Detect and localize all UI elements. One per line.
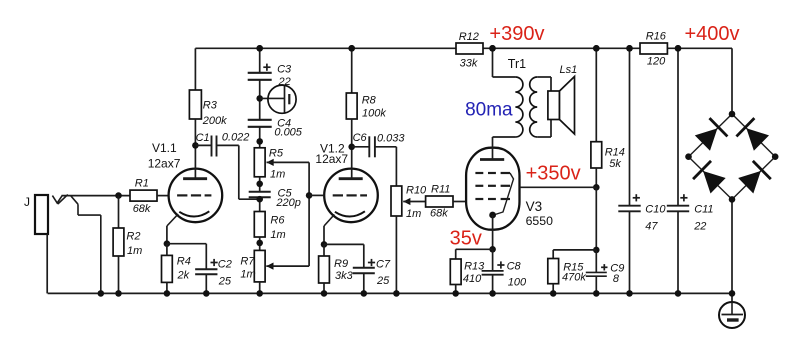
svg-text:R8: R8	[362, 95, 377, 107]
svg-text:C7: C7	[376, 259, 391, 271]
svg-text:100: 100	[508, 277, 527, 289]
svg-text:R16: R16	[646, 31, 667, 43]
svg-text:1m: 1m	[270, 169, 285, 181]
svg-text:80ma: 80ma	[465, 100, 513, 121]
svg-text:35v: 35v	[450, 227, 482, 249]
svg-text:33k: 33k	[460, 58, 478, 70]
svg-text:R1: R1	[135, 178, 149, 190]
svg-text:R10: R10	[406, 185, 427, 197]
svg-text:V3: V3	[526, 199, 543, 214]
svg-text:1m: 1m	[406, 208, 421, 220]
svg-text:C6: C6	[353, 132, 368, 144]
svg-text:68k: 68k	[133, 203, 151, 215]
svg-text:R2: R2	[126, 231, 140, 243]
svg-text:0.022: 0.022	[222, 132, 250, 144]
svg-text:47: 47	[645, 221, 658, 233]
svg-text:+390v: +390v	[489, 23, 544, 45]
svg-text:J: J	[24, 195, 30, 209]
svg-text:6550: 6550	[526, 214, 554, 228]
svg-text:470k: 470k	[562, 272, 586, 284]
svg-text:12ax7: 12ax7	[315, 152, 348, 166]
svg-text:R14: R14	[605, 147, 625, 159]
svg-text:2k: 2k	[177, 270, 190, 282]
svg-text:220p: 220p	[275, 197, 300, 209]
svg-text:V1.1: V1.1	[152, 141, 177, 155]
svg-text:0.033: 0.033	[377, 133, 405, 145]
svg-text:C2: C2	[218, 259, 232, 271]
svg-text:1m: 1m	[270, 229, 285, 241]
svg-text:R12: R12	[459, 31, 479, 43]
svg-text:C10: C10	[645, 204, 666, 216]
svg-text:5k: 5k	[609, 158, 621, 170]
svg-text:1m: 1m	[127, 245, 142, 257]
svg-text:0.005: 0.005	[274, 126, 302, 138]
svg-text:+400v: +400v	[685, 23, 740, 45]
svg-text:25: 25	[218, 276, 232, 288]
svg-text:200k: 200k	[202, 115, 227, 127]
svg-text:8: 8	[613, 273, 620, 285]
svg-text:R6: R6	[270, 215, 285, 227]
svg-text:12ax7: 12ax7	[148, 157, 181, 171]
svg-text:C3: C3	[277, 64, 292, 76]
svg-text:Tr1: Tr1	[508, 57, 526, 71]
svg-text:68k: 68k	[430, 208, 448, 220]
svg-text:410: 410	[463, 273, 482, 285]
svg-text:C8: C8	[507, 261, 522, 273]
svg-text:R11: R11	[431, 184, 450, 196]
svg-text:R3: R3	[203, 100, 218, 112]
svg-text:R7: R7	[240, 256, 255, 268]
svg-text:3k3: 3k3	[335, 270, 354, 282]
svg-text:C1: C1	[196, 132, 210, 144]
svg-text:100k: 100k	[362, 108, 386, 120]
svg-text:R5: R5	[269, 148, 284, 160]
svg-text:120: 120	[647, 56, 666, 68]
svg-text:25: 25	[376, 275, 390, 287]
svg-text:R9: R9	[334, 258, 348, 270]
svg-text:1m: 1m	[240, 269, 255, 281]
svg-text:22: 22	[693, 221, 706, 233]
svg-text:Ls1: Ls1	[560, 64, 578, 76]
svg-text:+350v: +350v	[526, 163, 581, 185]
svg-text:C11: C11	[694, 204, 713, 216]
svg-text:R4: R4	[177, 256, 191, 268]
